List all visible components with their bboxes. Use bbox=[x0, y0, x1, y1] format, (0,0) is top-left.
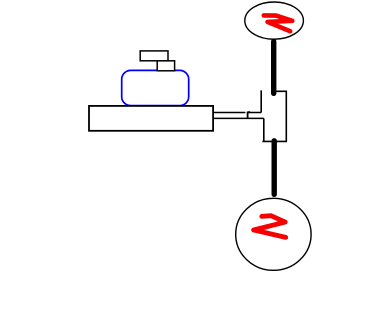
relay box U1 bbox=[261, 90, 286, 141]
flask neck bbox=[157, 61, 174, 71]
battery box (base) bbox=[89, 106, 213, 131]
flask cap bbox=[140, 51, 168, 61]
red scribble top bbox=[264, 15, 293, 31]
red scribble bottom bbox=[254, 216, 286, 238]
thick wire top bbox=[271, 42, 276, 94]
bell/source bottom bbox=[236, 198, 311, 270]
bell/source top bbox=[245, 2, 304, 39]
thick wire bottom bbox=[272, 141, 277, 195]
contact tick bbox=[248, 112, 251, 119]
flask body (blue) bbox=[122, 70, 189, 105]
wire pair top bbox=[214, 112, 262, 114]
wire pair bottom bbox=[214, 117, 264, 119]
